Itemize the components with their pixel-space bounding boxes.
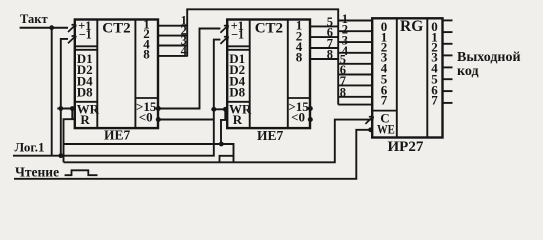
- register right field divider: [426, 18, 428, 137]
- wire Такт to +1 input of counter DD1: [20, 27, 68, 29]
- node: >15 output dot of DD2: [308, 106, 313, 111]
- svg-text:Чтение: Чтение: [15, 165, 59, 180]
- dynamic input arrow +1 of counter DD1: [68, 25, 76, 33]
- register input digit 5: [381, 71, 388, 86]
- wire register input 2: [338, 41, 372, 43]
- wire register input 4: [338, 63, 372, 65]
- net label 8 right of bus: [340, 85, 346, 99]
- svg-text:<0: <0: [291, 110, 305, 125]
- dynamic input arrow +1 of counter DD2: [220, 25, 228, 33]
- wire <0 of DD1 to riser at -1 of DD2: [158, 119, 214, 121]
- register output stub 4: [443, 66, 453, 68]
- node: dot WR2-R2 tie: [223, 107, 228, 112]
- net label 8 left of bus: [327, 47, 333, 61]
- svg-text:8: 8: [340, 85, 346, 99]
- counter DD1 pin label R: [80, 112, 90, 127]
- register output digit 2: [431, 39, 438, 54]
- counter DD2 left field divider: [249, 20, 251, 129]
- counter DD1 output label >15: [136, 99, 157, 114]
- svg-text:8: 8: [143, 46, 150, 61]
- counter DD2 output label 2: [296, 28, 303, 43]
- register output stub 0: [443, 19, 453, 21]
- counter DD2 label CT2: [255, 21, 283, 37]
- wire WR input of DD1: [57, 108, 75, 110]
- wire B read line to register C input: [64, 120, 372, 163]
- register output stub 7: [443, 102, 453, 104]
- wire A reset line under counters: [64, 144, 234, 162]
- register output digit 4: [431, 60, 438, 75]
- node: dot R2 feed on wire A: [219, 142, 224, 147]
- wire R input of DD2 and drop to wire A: [221, 109, 227, 144]
- node: <0 output dot of DD2: [308, 117, 313, 122]
- register label RG: [400, 18, 423, 35]
- counter DD1 ИЕ7 block outline: [75, 20, 158, 129]
- net label 2 at DD1 outputs: [181, 24, 187, 38]
- svg-text:WE: WE: [377, 123, 395, 137]
- counter DD2 pin label D8: [229, 85, 245, 100]
- net label 1 at DD1 outputs: [181, 14, 187, 28]
- net label 2 right of bus: [342, 23, 348, 37]
- register output digit 0: [431, 19, 438, 34]
- counter DD2 pin label -1: [231, 28, 244, 42]
- counter DD1 separator under -1: [75, 46, 98, 50]
- pulse mark on read line: [220, 156, 234, 163]
- register output digit 5: [431, 71, 438, 86]
- register pin label C: [380, 111, 389, 126]
- svg-text:Лог.1: Лог.1: [15, 139, 45, 154]
- register input digit 0: [381, 19, 388, 34]
- register input digit 6: [381, 83, 388, 98]
- svg-text:ИР27: ИР27: [388, 139, 424, 155]
- counter DD2 output label 1: [296, 18, 303, 33]
- counter DD2 separator under -1: [227, 46, 250, 50]
- counter DD1 right field divider: [134, 20, 136, 129]
- register output stub 5: [443, 78, 453, 80]
- counter DD2 pin label D2: [229, 62, 245, 77]
- counter DD1 output label 2: [143, 26, 150, 41]
- wire Такт junction down to Лог.1 line: [51, 28, 53, 156]
- pulse waveform symbol for Чтение: [65, 170, 98, 175]
- wire DD1 output 1 to bus: [158, 25, 188, 27]
- register output stub 3: [443, 54, 453, 56]
- bus wire over the top: [186, 8, 339, 10]
- counter DD2 ИЕ7 block outline: [227, 20, 310, 129]
- node: <0 output dot of DD1: [156, 117, 161, 122]
- net label 3 right of bus: [342, 33, 348, 47]
- counter DD2 right field divider: [287, 20, 289, 129]
- wire riser Лог.1 to -1 input of counter DD1: [61, 39, 68, 156]
- wire Чтение line to WE of register: [14, 130, 372, 179]
- svg-text:Такт: Такт: [20, 12, 48, 26]
- counter DD2 output label <0: [291, 110, 305, 125]
- wire DD2 output 2 to bus: [310, 36, 338, 38]
- counter DD2 output label 8: [296, 50, 303, 65]
- label Чтение: [15, 165, 59, 180]
- wire DD2 output 4 to bus: [310, 47, 338, 49]
- counter DD1 pin label D2: [77, 62, 93, 77]
- svg-text:ИЕ7: ИЕ7: [104, 128, 131, 143]
- node: dot Лог.1 riser on WR1 wire: [58, 106, 63, 111]
- net label 6 right of bus: [340, 63, 346, 77]
- svg-text:−1: −1: [231, 28, 244, 42]
- counter DD2 pin label +1: [231, 19, 244, 33]
- counter DD2 pin label R: [233, 112, 243, 127]
- counter DD1 left field divider: [96, 20, 98, 129]
- wire Лог.1 line and riser to WR2/-1 of DD2: [13, 40, 220, 156]
- svg-text:7: 7: [431, 92, 438, 107]
- svg-text:CT2: CT2: [255, 21, 283, 37]
- register output digit 3: [431, 50, 438, 65]
- svg-text:ИЕ7: ИЕ7: [257, 128, 284, 143]
- wire DD1 output 2 to bus: [158, 35, 188, 37]
- register separator above C: [372, 110, 397, 112]
- wire register input 7: [338, 96, 372, 98]
- net label 4 at DD1 outputs: [181, 44, 188, 58]
- register output stub 2: [443, 43, 453, 45]
- counter DD1 separator under D8: [75, 101, 98, 103]
- wire register input 1: [338, 30, 372, 32]
- wire register input 0: [338, 20, 372, 22]
- svg-text:RG: RG: [400, 18, 423, 35]
- wire WR input of DD2: [211, 108, 227, 110]
- counter DD2 type label ИЕ7: [257, 128, 284, 143]
- wire R input of DD1 and drop to read line: [64, 119, 75, 162]
- wire >15 of DD1 to +1 of DD2: [158, 29, 220, 109]
- svg-text:R: R: [80, 112, 90, 127]
- wire register input 3: [338, 52, 372, 54]
- wire bus bottom into register: [338, 104, 372, 106]
- node: dot at WE pin of register: [368, 127, 373, 132]
- register left field divider: [396, 18, 398, 137]
- net label 5 left of bus: [327, 15, 333, 29]
- counter DD2 pin label WR: [229, 101, 252, 116]
- bus vertical at register inputs: [337, 9, 339, 104]
- node: dot WR1-R1 tie: [70, 106, 75, 111]
- counter DD1 output label 4: [143, 36, 150, 51]
- register output stub 6: [443, 90, 453, 92]
- register type label ИР27: [388, 139, 424, 155]
- counter DD1 pin label D4: [77, 73, 93, 88]
- net label 5 right of bus: [340, 52, 346, 66]
- counter DD1 separator above >15: [135, 97, 158, 99]
- register DD3 ИР27 block outline: [372, 18, 442, 137]
- wire DD1 output 8 to bus: [158, 55, 188, 57]
- register input digit 3: [381, 50, 388, 65]
- counter DD1 pin label +1: [78, 19, 91, 33]
- counter DD1 output label <0: [139, 110, 153, 125]
- counter DD2 output label >15: [288, 99, 309, 114]
- counter DD1 pin label -1: [79, 28, 92, 42]
- wire DD2 output 1 to bus: [310, 25, 338, 27]
- svg-text:−1: −1: [79, 28, 92, 42]
- counter DD1 pin label D8: [77, 85, 93, 100]
- bus vertical at DD1 outputs: [186, 9, 188, 56]
- svg-text:7: 7: [381, 92, 388, 107]
- counter DD1 pin label WR: [77, 101, 100, 116]
- counter DD2 pin label D1: [229, 51, 245, 66]
- label Такт (clock input): [20, 12, 48, 26]
- register input digit 1: [381, 29, 388, 44]
- svg-text:CT2: CT2: [102, 21, 130, 37]
- counter DD1 label CT2: [102, 21, 130, 37]
- counter DD1 output label 8: [143, 46, 150, 61]
- svg-text:D8: D8: [229, 85, 245, 100]
- svg-text:код: код: [457, 64, 479, 79]
- counter DD1 type label ИЕ7: [104, 128, 131, 143]
- node: Такт junction dot: [49, 25, 54, 30]
- label Лог.1: [15, 139, 45, 154]
- counter DD1 output label 1: [143, 16, 150, 31]
- wire register input 6: [338, 84, 372, 86]
- node: dot on Лог.1 line: [58, 153, 63, 158]
- node: dot riser on WR2 wire: [212, 107, 217, 112]
- register input digit 2: [381, 39, 388, 54]
- counter DD1 pin label D1: [77, 51, 93, 66]
- register output stub 1: [443, 31, 453, 33]
- net label 7 left of bus: [327, 37, 333, 51]
- wire DD2 output 8 to bus: [310, 58, 338, 60]
- counter DD2 separator above >15: [288, 97, 310, 99]
- label Выходной код line 1: [457, 50, 521, 65]
- svg-text:8: 8: [296, 50, 303, 65]
- wire register input 5: [338, 74, 372, 76]
- net label 4 right of bus: [342, 44, 349, 58]
- svg-text:D8: D8: [77, 85, 93, 100]
- counter DD2 output label 4: [296, 39, 303, 54]
- svg-text:R: R: [233, 112, 243, 127]
- label Выходной код line 2: [457, 64, 479, 79]
- register output digit 7: [431, 92, 438, 107]
- register input digit 7: [381, 92, 388, 107]
- svg-text:<0: <0: [139, 110, 153, 125]
- net label 6 left of bus: [327, 26, 333, 40]
- register output digit 6: [431, 83, 438, 98]
- wire DD1 output 4 to bus: [158, 45, 188, 47]
- dynamic input arrow -1 of counter DD1: [68, 36, 76, 44]
- register input digit 4: [381, 60, 388, 75]
- dynamic input arrow -1 of counter DD2: [220, 36, 228, 44]
- net label 1 right of bus: [342, 12, 348, 26]
- counter DD2 pin label D4: [229, 73, 245, 88]
- register output digit 1: [431, 29, 438, 44]
- svg-text:Выходной: Выходной: [457, 50, 521, 65]
- dynamic input arrow C of register: [365, 116, 373, 124]
- svg-text:8: 8: [327, 47, 333, 61]
- wire tie WR1 to R1: [71, 109, 73, 120]
- net label 3 at DD1 outputs: [181, 34, 187, 48]
- net label 7 right of bus: [340, 74, 346, 88]
- counter DD2 separator under D8: [227, 101, 250, 103]
- node: >15 output dot of DD1: [156, 106, 161, 111]
- register pin label WE: [377, 123, 395, 137]
